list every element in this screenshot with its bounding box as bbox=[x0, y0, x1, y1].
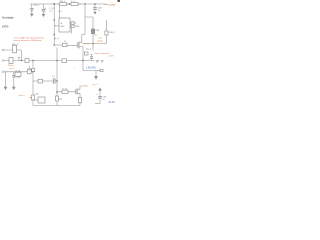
wire left box bbox=[33, 72, 80, 106]
resistor R17 bbox=[78, 98, 81, 106]
wire mid rail bbox=[56, 48, 58, 106]
diode D3 bbox=[32, 61, 34, 69]
wire drop to regulator stage bbox=[84, 4, 86, 35]
stub net tick bbox=[18, 57, 20, 60]
svg-text:SW_1: SW_1 bbox=[60, 1, 67, 3]
wire row mid bbox=[57, 60, 95, 62]
power arrow up VMOT bbox=[95, 88, 101, 104]
svg-text:GND: GND bbox=[60, 26, 65, 28]
transistor Q1 bbox=[77, 35, 85, 71]
svg-text:mot/drv: mot/drv bbox=[81, 85, 89, 88]
wire top rail bbox=[30, 3, 105, 5]
capacitor C50 bbox=[97, 95, 102, 98]
svg-text:battery, disconnect USB before: battery, disconnect USB before bbox=[14, 39, 43, 42]
transistor Q3 bbox=[28, 66, 32, 74]
capacitor C12 bbox=[12, 72, 15, 90]
svg-text:R_11: R_11 bbox=[16, 71, 22, 73]
svg-text:con_5: con_5 bbox=[9, 68, 15, 70]
svg-text:R_fb: R_fb bbox=[85, 44, 90, 46]
wire drain row bbox=[82, 43, 107, 45]
net flag pin2 bbox=[71, 25, 75, 27]
svg-text:1.8k (P5): 1.8k (P5) bbox=[86, 67, 96, 70]
sheet corner mark bbox=[117, 0, 120, 2]
svg-text:+3.3V: +3.3V bbox=[108, 56, 114, 58]
switch SW1 row bbox=[2, 45, 22, 60]
ground arrow (C9) bbox=[42, 14, 45, 17]
resistor R21 bbox=[91, 29, 94, 51]
svg-text:+5.8V: +5.8V bbox=[109, 3, 116, 7]
resistor R13 bbox=[31, 95, 34, 100]
svg-text:dc/in c.: dc/in c. bbox=[19, 95, 26, 97]
svg-text:+8.4V: +8.4V bbox=[108, 100, 115, 104]
capacitor C48 bbox=[93, 4, 97, 11]
ground arrow (battery) bbox=[31, 13, 34, 16]
resistor R7 bbox=[62, 59, 67, 63]
ground arrow (C48) bbox=[94, 11, 96, 14]
svg-text:SP/out: SP/out bbox=[8, 64, 14, 67]
svg-text:(chg): (chg) bbox=[98, 40, 103, 42]
wire U2 pins bbox=[70, 23, 71, 34]
test point TP1 bbox=[85, 52, 89, 55]
connector row wires bbox=[2, 71, 33, 73]
svg-text:KiPS: KiPS bbox=[2, 25, 8, 29]
wire U2 supply stub bbox=[58, 6, 60, 18]
transistor Q2 bbox=[75, 86, 80, 98]
resistor R6 gate series bbox=[54, 43, 77, 46]
wire branch y17 bbox=[85, 17, 93, 29]
jack J1 row bbox=[2, 57, 57, 63]
svg-text:R_16: R_16 bbox=[62, 88, 68, 90]
jumper JP1 bbox=[96, 61, 104, 62]
svg-text:Nostalgia: Nostalgia bbox=[2, 16, 14, 20]
ground arrow (row) bbox=[4, 72, 7, 90]
wire orange stub bbox=[30, 97, 32, 99]
ground arrow (P5) bbox=[83, 69, 103, 79]
svg-text:C48_1: C48_1 bbox=[109, 32, 116, 34]
svg-text:bat_1: bat_1 bbox=[34, 4, 40, 7]
fuse F1 bbox=[57, 3, 69, 6]
svg-text:connect BAT when powered from: connect BAT when powered from bbox=[14, 36, 44, 39]
resistor R22 bbox=[105, 20, 108, 44]
svg-text:1k: 1k bbox=[64, 41, 66, 43]
capacitor C9 bbox=[42, 4, 47, 14]
capacitor C31 bbox=[90, 55, 93, 61]
buzzer row bbox=[33, 78, 57, 84]
diode D1 bbox=[71, 3, 81, 6]
IC U2 box bbox=[59, 18, 70, 32]
svg-text:vm_1: vm_1 bbox=[92, 84, 98, 86]
node junction dots bbox=[54, 3, 55, 4]
resistor R16 gate2 bbox=[57, 90, 75, 93]
net flag pin1 bbox=[71, 22, 75, 24]
wire rail A vertical bbox=[53, 4, 55, 45]
IC U4 box bbox=[38, 97, 45, 103]
resistor R11 bbox=[15, 72, 21, 76]
svg-text:SW_3: SW_3 bbox=[12, 44, 19, 46]
resistor R14 bbox=[55, 96, 58, 101]
battery BT1 bbox=[30, 4, 34, 13]
